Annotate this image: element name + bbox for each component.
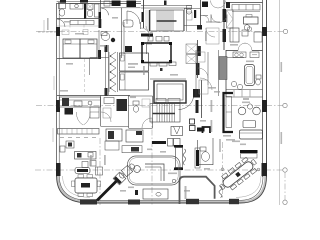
black fixture block top 1	[112, 1, 121, 7]
stair1 left wall	[149, 10, 151, 31]
grid bubble D bottom	[283, 200, 287, 204]
double door arcs top	[211, 1, 219, 9]
shaft2 doors	[156, 99, 166, 103]
foyer L sofa	[145, 164, 164, 181]
dining table diagonal	[216, 154, 261, 194]
coffee table	[243, 121, 256, 128]
hall wall	[101, 7, 141, 9]
bottom wall column 4	[229, 199, 239, 204]
kitchen counter top row	[60, 97, 101, 107]
small rooms mid	[197, 52, 205, 62]
bath partition black	[84, 4, 86, 19]
top wall left section	[57, 3, 141, 5]
entry door diamond	[113, 172, 126, 185]
door half swing	[141, 28, 150, 45]
text strip vertical mid	[219, 139, 221, 152]
black shaft square	[125, 46, 132, 52]
bench with circle	[143, 189, 168, 199]
stair 2	[150, 104, 180, 123]
corridor wall x=121.5	[121, 8, 123, 58]
dimension text strips left	[44, 20, 54, 142]
office top wall	[226, 2, 263, 4]
wc room bottom mid	[197, 140, 199, 165]
grid bubble A	[283, 29, 287, 33]
powder room	[152, 96, 154, 128]
washer black	[117, 99, 128, 111]
long sofa	[240, 130, 263, 139]
hall wall chunk black	[142, 12, 145, 22]
grid line vertical x=100	[99, 138, 101, 205]
grid line C horizontal dash-dot y=170	[35, 169, 283, 171]
vertical text column entry	[90, 155, 92, 166]
desk chair	[244, 25, 250, 31]
tall fixture	[95, 4, 100, 17]
cooktop black	[65, 108, 74, 115]
stair right wall	[184, 8, 186, 31]
bedroom B walls	[108, 45, 110, 95]
island 2	[106, 129, 122, 141]
office bottom wall + double door	[226, 50, 238, 52]
foyer column	[134, 166, 141, 173]
curtain squiggle bottom	[219, 186, 222, 198]
wall chunk x100	[99, 19, 102, 28]
living room side table	[247, 104, 252, 109]
bottom exterior wall band	[88, 201, 240, 203]
call lantern speck	[160, 68, 163, 71]
hall cabinet	[104, 1, 110, 6]
dumbwaiter squares	[190, 119, 195, 124]
door arc wc	[203, 16, 209, 22]
bathroom wall vertical x=100.5	[100, 0, 102, 19]
left exterior wall	[56, 3, 58, 177]
grid line vertical x=285 bottom	[284, 172, 286, 200]
black chunk below wc	[197, 25, 202, 30]
bar black pill	[75, 168, 90, 174]
ceiling break dashed	[84, 59, 86, 94]
toilet cistern	[59, 3, 66, 9]
cabinet squares	[168, 139, 174, 147]
door arc core2	[200, 78, 212, 90]
bathroom wall vertical x=84.5	[84, 4, 86, 20]
property line vertical x=279.4	[278, 0, 280, 205]
left wall black chunk 1	[56, 27, 60, 36]
grid C marker circles	[221, 168, 224, 171]
text specks scattered	[47, 17, 282, 192]
door arc hall1	[102, 8, 109, 15]
hanger rod dots	[110, 55, 112, 57]
door leaf black bar	[141, 34, 153, 37]
inner offset arc bottom-left	[63, 176, 91, 197]
office closet	[227, 10, 234, 28]
black dot column	[111, 38, 115, 42]
laundry walls	[100, 96, 102, 127]
double doors to office	[211, 15, 219, 23]
island 3	[126, 130, 143, 142]
fireplace opening	[175, 148, 182, 168]
bookcase right wall	[254, 32, 262, 42]
label marks bedroom A	[62, 30, 69, 35]
room label specks	[243, 98, 249, 100]
grid line vertical x=152	[151, 118, 153, 205]
bathtub	[245, 65, 255, 86]
wardrobe C black	[224, 93, 234, 132]
island stools	[82, 162, 88, 168]
right wall black chunk 2	[262, 100, 267, 112]
stair 1 upper rect	[150, 10, 184, 31]
bed B1	[120, 53, 149, 71]
left wall black chunk 3	[56, 163, 61, 176]
living room tub chair A	[238, 107, 246, 115]
black wall chunk mid	[196, 100, 199, 113]
door arc bath	[57, 19, 65, 27]
console with black top	[240, 150, 258, 153]
bottom wall column 2	[128, 200, 140, 205]
dresser bedroom A	[70, 21, 94, 25]
master bath walls	[226, 57, 244, 59]
right wall black chunk 3	[262, 163, 268, 176]
small circle foyer	[172, 179, 176, 183]
fixtures above shaft	[148, 37, 153, 42]
cabinet small boxes	[60, 146, 65, 152]
closet wall black chunks	[105, 45, 108, 52]
closet dividers	[233, 90, 235, 97]
kitchen island	[75, 152, 97, 160]
left wall black chunk 2	[56, 100, 60, 112]
media wall black	[196, 150, 199, 166]
corridor wall second line	[123, 22, 125, 54]
kitchen cabinet run	[58, 129, 100, 135]
vanity	[233, 52, 246, 58]
sink kitchen	[74, 101, 82, 106]
office top cabinets	[232, 5, 260, 11]
foyer stadium	[128, 156, 181, 185]
right exterior wall	[262, 0, 264, 177]
sink circles	[231, 81, 236, 86]
wc walls	[184, 8, 200, 10]
sofa office	[230, 28, 239, 42]
grid line B horizontal dash-dot y=105.5	[36, 105, 283, 107]
living partition wall	[180, 177, 215, 204]
wall chunk x100 lower	[98, 50, 101, 59]
bottom-left curved corner wall	[58, 176, 90, 202]
stair 1 treads	[157, 10, 173, 31]
wall corner right	[147, 44, 153, 54]
luggage chute W-box	[171, 127, 183, 136]
door arc stair foot	[146, 26, 153, 33]
shower tray	[87, 4, 93, 10]
counter right	[90, 107, 99, 118]
right wall black chunk 1	[262, 27, 267, 36]
sideboard long	[122, 146, 142, 153]
bedroom A bottom wall	[57, 58, 99, 60]
stair 2 rail	[153, 113, 176, 115]
wc fixture	[123, 20, 133, 27]
twin bed 1	[63, 39, 80, 58]
grid line vertical x=222.5	[222, 142, 224, 198]
bottom wall column 3	[186, 199, 199, 204]
shaft X-box 2	[186, 55, 197, 64]
wc black bar	[194, 10, 196, 18]
top wall over stair	[141, 5, 192, 7]
bath text specks	[64, 21, 71, 23]
stair 1 rail	[157, 20, 177, 22]
wc toilet circle	[186, 9, 191, 14]
bathroom bottom wall y=18.5	[57, 18, 101, 20]
lift black block	[193, 89, 200, 98]
fireplace black bar left	[152, 141, 166, 144]
black fixture block top 2	[127, 1, 137, 8]
fireplace jamb top	[174, 145, 183, 148]
dining table left	[75, 178, 97, 193]
kitchen double door arcs	[76, 112, 83, 125]
living room tub chair B	[253, 107, 261, 115]
grid line A horizontal dash-dot y=31.5	[35, 32, 285, 206]
entry diagonal wall	[97, 181, 117, 201]
dim text row top-left	[38, 31, 56, 33]
twin bed 2	[80, 39, 97, 58]
door arc core1	[179, 97, 194, 110]
dark marks entry	[96, 167, 103, 175]
closet chevron strip	[110, 52, 116, 92]
bed B2	[120, 72, 149, 90]
inner offset arc bottom-right	[236, 176, 261, 197]
foyer chair set	[118, 162, 137, 180]
vanity counter	[70, 4, 83, 10]
grid bubble B	[283, 103, 287, 107]
corridor wall x=224 top	[223, 0, 225, 50]
fireplace jamb bottom	[174, 168, 183, 171]
range black	[62, 98, 69, 106]
black wall chunk core	[197, 46, 201, 56]
curtain squiggle mid	[183, 149, 186, 165]
tiled strip	[219, 57, 227, 80]
shaft X-box 1	[186, 44, 197, 54]
desk	[244, 17, 259, 24]
corridor wall x=143.5	[143, 0, 145, 28]
door arc hall2	[127, 11, 140, 24]
top wall black segments	[60, 0, 66, 3]
side table office	[242, 30, 248, 36]
dim tick line under bath	[57, 25, 100, 27]
black bar by dumbwaiter	[197, 128, 205, 132]
cabinet handles row	[60, 137, 96, 139]
wc cluster near stair: black block top	[202, 2, 208, 8]
toilet master	[256, 75, 261, 79]
closet U black	[203, 127, 211, 133]
elevator doors	[150, 63, 157, 67]
lobby wall	[150, 78, 186, 80]
wc oval lower	[101, 33, 109, 41]
small sideboard	[105, 141, 119, 150]
bottom wall column 1	[80, 199, 97, 204]
elevator shaft 2	[154, 81, 186, 103]
elevator shaft 1	[142, 43, 171, 63]
bottom-right curved corner wall	[240, 176, 265, 202]
grid bubble C	[283, 168, 287, 172]
